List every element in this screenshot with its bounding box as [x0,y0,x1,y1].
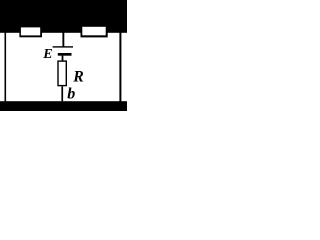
battery E short plate [58,53,72,56]
cropped box 2 white interior [82,27,105,36]
cropped box 1 white interior [21,27,40,35]
top crop mask bar [0,0,127,33]
wire left branch [5,33,7,103]
page background [0,0,127,111]
svg-text:b: b [67,85,75,102]
wire from battery to resistor [62,56,64,61]
cropped box 2 border (right, bottom edge of cut-off component) [81,32,108,37]
bottom crop mask bar [0,101,127,111]
wire right branch [119,33,121,103]
svg-text:E: E [42,47,52,62]
cropped box 1 border (left, bottom edge of cut-off component) [19,32,42,37]
svg-text:R: R [72,68,84,85]
wire from resistor to bottom node b [61,86,63,101]
battery E long plate [53,46,73,47]
wire from top bus to battery [62,33,64,47]
resistor R box [58,61,66,86]
